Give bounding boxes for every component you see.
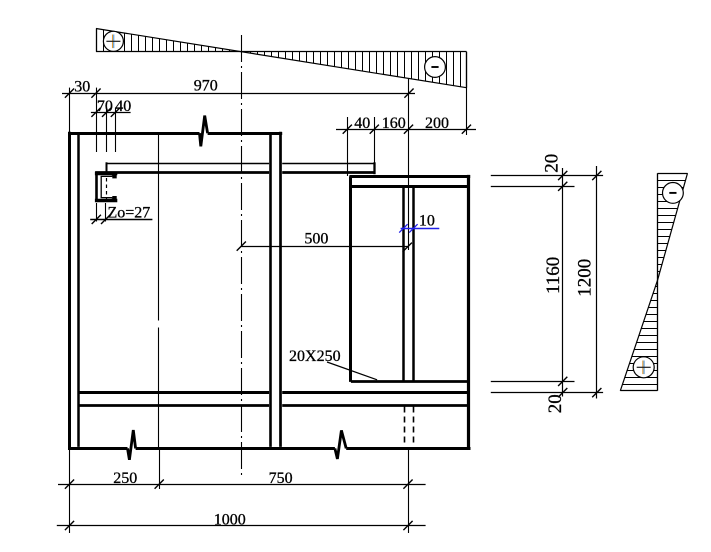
- stress diagram axis: [657, 173, 659, 391]
- extension line x=115.4: [115, 108, 117, 153]
- dim text 40b: [354, 115, 370, 132]
- text 20X250: [289, 348, 341, 365]
- bottom extension x=408: [408, 450, 410, 533]
- svg-text:20: 20: [545, 394, 566, 413]
- dim text 70: [97, 98, 113, 115]
- svg-text:70: 70: [97, 98, 113, 115]
- slab left end: [106, 162, 108, 173]
- right box bottom flange top line: [351, 380, 470, 383]
- dim 1000 ticks: [65, 521, 413, 530]
- top moment diagram right edge: [466, 52, 468, 88]
- grid line x=159 lower: [158, 328, 160, 448]
- dim 500 ticks: [237, 242, 412, 252]
- right box top flange bottom line: [351, 185, 469, 188]
- svg-text:750: 750: [269, 470, 293, 487]
- svg-text:200: 200: [425, 115, 449, 132]
- dim row2 ticks: [91, 108, 120, 117]
- top edge right part: [208, 132, 283, 135]
- ext line y=186.3: [491, 186, 575, 188]
- right dim ticks: [558, 171, 601, 397]
- right box top flange top line: [349, 175, 470, 178]
- top moment diagram sloped line: [96, 29, 467, 88]
- dim text 250: [113, 470, 137, 487]
- svg-text:10: 10: [419, 213, 435, 230]
- Zo dim line: [90, 219, 152, 221]
- top edge left part: [68, 132, 200, 135]
- stress diagram upper sloped line: [658, 173, 688, 280]
- slab right end: [373, 162, 375, 174]
- web left line: [402, 187, 405, 382]
- stress minus circle: [663, 183, 684, 204]
- hidden web dashes in footing: [405, 407, 414, 447]
- Zo extension x=96.3: [96, 203, 98, 222]
- channel web: [95, 172, 98, 202]
- svg-text:970: 970: [194, 78, 218, 95]
- ext line y=381.4: [491, 381, 575, 383]
- bottom edge seg3: [346, 447, 470, 450]
- dim text 160: [382, 115, 406, 132]
- bottom extension x=69.5: [69, 450, 71, 533]
- outer dim line x=596.8: [596, 166, 598, 399]
- inner dim line x=562.7: [562, 168, 564, 397]
- right box right wall: [467, 175, 470, 450]
- channel bottom flange: [95, 199, 117, 203]
- ext line y=175.5: [491, 175, 603, 177]
- svg-text:40: 40: [354, 115, 370, 132]
- svg-text:250: 250: [113, 470, 137, 487]
- rot text 1200: [575, 259, 596, 297]
- channel top flange tip: [112, 172, 116, 178]
- slab bottom line left seg: [95, 171, 269, 174]
- Zo extension x=105.6: [105, 203, 107, 222]
- left inner wall: [77, 133, 80, 447]
- hidden line x=106.6 in channel: [106, 165, 108, 202]
- stress diagram lower sloped line: [620, 280, 657, 391]
- dim text 30: [74, 78, 90, 95]
- rot text 1160: [543, 257, 564, 294]
- dim text 10: [419, 213, 435, 230]
- dim row3 line: [336, 129, 476, 131]
- dim text 1000: [214, 511, 246, 528]
- stress diagram hatching: [622, 181, 685, 385]
- dim text 40a: [115, 98, 131, 115]
- bottom extension x=159.2: [159, 450, 161, 489]
- dim 500 line: [241, 246, 408, 248]
- dim text 500: [304, 231, 328, 248]
- blue dim ticks: [399, 224, 417, 232]
- rot text 20 bottom: [545, 394, 566, 413]
- minus circle (negative moment): [425, 57, 446, 78]
- slab top line left seg: [107, 163, 270, 165]
- slab bottom line right seg: [282, 171, 375, 174]
- stress plus circle: [633, 357, 654, 378]
- dim 250-750 ticks: [65, 480, 413, 489]
- bottom edge seg2: [136, 447, 335, 450]
- Zo text: [108, 205, 151, 222]
- extension line x=466.4: [466, 52, 468, 135]
- svg-text:20: 20: [541, 154, 562, 173]
- dim 1000 line: [57, 525, 426, 527]
- web right line: [412, 187, 415, 382]
- dim 250-750 line: [58, 484, 426, 486]
- extension line x=408.5 (web axis): [408, 79, 410, 250]
- left outer wall: [68, 132, 71, 450]
- break symbol bottom middle: [335, 430, 346, 459]
- channel inner contour: [101, 175, 116, 200]
- stress diagram bottom edge: [620, 390, 657, 392]
- svg-text:1160: 1160: [543, 257, 564, 294]
- svg-text:40: 40: [115, 98, 131, 115]
- Zo ticks: [92, 215, 111, 224]
- channel top flange: [95, 172, 117, 175]
- top moment diagram baseline: [96, 51, 467, 53]
- svg-text:500: 500: [304, 231, 328, 248]
- dim row2 line: [91, 112, 131, 114]
- dim row1 line: [62, 93, 415, 95]
- right box left wall: [349, 176, 352, 382]
- dim text 970: [194, 78, 218, 95]
- row B left seg (footing top): [78, 404, 269, 407]
- extension line x=106.6 upper: [106, 108, 108, 153]
- bottom edge seg1: [68, 447, 128, 450]
- svg-text:Zo=27: Zo=27: [108, 205, 151, 222]
- plus circle (positive moment): [103, 31, 123, 51]
- extension line x=347.3: [347, 117, 349, 176]
- rot text 20 top: [541, 154, 562, 173]
- svg-text:160: 160: [382, 115, 406, 132]
- extension line x=374.3: [374, 117, 376, 163]
- svg-text:30: 30: [74, 78, 90, 95]
- dim row1 ticks: [65, 89, 414, 98]
- top moment diagram left edge: [96, 29, 98, 52]
- ext line y=392.6: [491, 392, 603, 394]
- svg-text:1000: 1000: [214, 511, 246, 528]
- row B right seg: [282, 404, 470, 407]
- stress diagram top edge: [658, 173, 688, 175]
- extension line x=69.5 top: [69, 88, 71, 133]
- dim text 200: [425, 115, 449, 132]
- svg-text:20X250: 20X250: [289, 348, 341, 365]
- break symbol bottom left: [128, 430, 136, 460]
- row A left seg (left box bottom): [78, 391, 269, 394]
- grid line x=159 upper: [158, 134, 160, 321]
- middle wall left line: [269, 133, 272, 447]
- top moment diagram hatching: [104, 30, 461, 87]
- centerline x=241.3: [241, 35, 243, 478]
- extension line x=96: [96, 88, 98, 152]
- blue dim line 10: [401, 228, 440, 230]
- channel bottom flange tip: [112, 196, 116, 200]
- slab top line right seg: [282, 163, 374, 165]
- svg-text:1200: 1200: [575, 259, 596, 297]
- leader 20X250: [327, 362, 377, 380]
- dim row3 ticks: [343, 125, 471, 134]
- dim text 750: [269, 470, 293, 487]
- row A right seg (bottom flange bottom): [282, 391, 470, 394]
- middle wall right line: [279, 132, 282, 447]
- break symbol top: [200, 116, 208, 147]
